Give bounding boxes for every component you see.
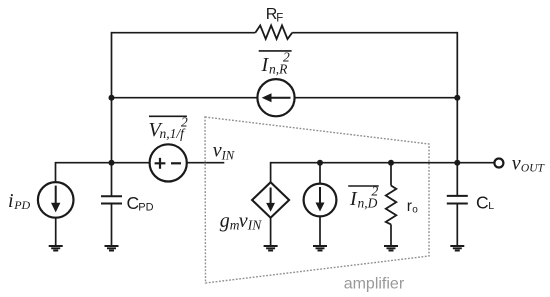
junction dot output node	[454, 160, 460, 166]
resistor ro	[386, 186, 397, 225]
junction dot left rail / InR row	[109, 95, 115, 101]
junction dot main node	[109, 160, 115, 166]
svg-text:C: C	[127, 193, 140, 213]
VCCS arrow	[270, 188, 272, 205]
svg-text:v: v	[512, 153, 521, 175]
current source InD circle	[304, 184, 337, 217]
voltage source Vn circle	[150, 144, 187, 181]
wire top-left to resistor	[112, 32, 256, 34]
VCCS diamond gmvin	[252, 182, 289, 218]
svg-text:v: v	[213, 140, 222, 162]
svg-text:OUT: OUT	[521, 162, 546, 174]
capacitor CL	[447, 196, 468, 204]
iPD branch wire down	[55, 162, 57, 182]
CL wire to ground	[456, 204, 458, 247]
svg-text:2: 2	[283, 50, 290, 65]
ground iPD	[49, 246, 63, 251]
svg-text:F: F	[276, 13, 283, 25]
ground diamond	[264, 246, 278, 251]
amp internal top wire	[271, 162, 458, 164]
diamond wire to ground	[270, 218, 272, 246]
svg-text:2: 2	[181, 115, 188, 130]
CL top wire	[456, 163, 458, 196]
CPD wire to ground	[111, 204, 113, 247]
capacitor CPD	[101, 196, 122, 203]
current source InR arrow	[267, 97, 291, 99]
svg-text:amplifier: amplifier	[344, 276, 405, 293]
current source iPD arrow	[55, 186, 57, 205]
wire InR row right	[295, 97, 458, 99]
wire down to diamond	[270, 162, 272, 182]
ro wire to ground	[390, 224, 392, 246]
vout open terminal	[494, 159, 503, 168]
wire down to ro	[390, 163, 392, 186]
svg-text:r: r	[407, 198, 412, 215]
svg-text:i: i	[8, 190, 14, 212]
svg-text:PD: PD	[138, 202, 153, 214]
current source iPD circle	[38, 182, 74, 218]
junction dot ro	[388, 160, 394, 166]
svg-text:g: g	[220, 210, 230, 232]
ground CL	[450, 246, 464, 251]
wire resistor to top-right	[292, 32, 457, 34]
junction dot right rail / InR row	[454, 95, 460, 101]
label Vn1f2 overline	[149, 115, 187, 117]
InD wire to ground	[319, 216, 321, 246]
svg-text:C: C	[476, 193, 489, 213]
svg-text:IN: IN	[247, 218, 262, 233]
wire Vn to vin open end	[187, 162, 225, 164]
amplifier dashed trapezoid	[205, 117, 429, 283]
junction dot InD	[317, 160, 323, 166]
wire InR row left	[112, 97, 258, 99]
wire down to InD	[319, 163, 321, 184]
svg-text:o: o	[412, 205, 418, 216]
resistor RF	[255, 25, 292, 39]
wire to vout terminal	[457, 162, 494, 164]
svg-text:IN: IN	[221, 148, 235, 162]
iPD wire to ground	[55, 218, 57, 246]
Vn minus sign	[171, 162, 181, 164]
label InR2 overline	[259, 50, 292, 52]
svg-text:PD: PD	[13, 198, 30, 212]
right rail	[456, 32, 458, 163]
ground ro	[384, 246, 398, 251]
main wire left segment	[56, 162, 150, 164]
label InD2 overline	[348, 185, 379, 187]
current source InR circle	[257, 79, 294, 116]
ground InD	[313, 246, 327, 251]
svg-text:L: L	[488, 200, 494, 212]
current source InD arrow	[319, 187, 321, 205]
left rail	[111, 32, 113, 196]
Vn plus sign	[155, 158, 166, 169]
svg-text:2: 2	[372, 184, 379, 199]
svg-text:v: v	[239, 210, 248, 232]
ground CPD	[105, 246, 119, 251]
